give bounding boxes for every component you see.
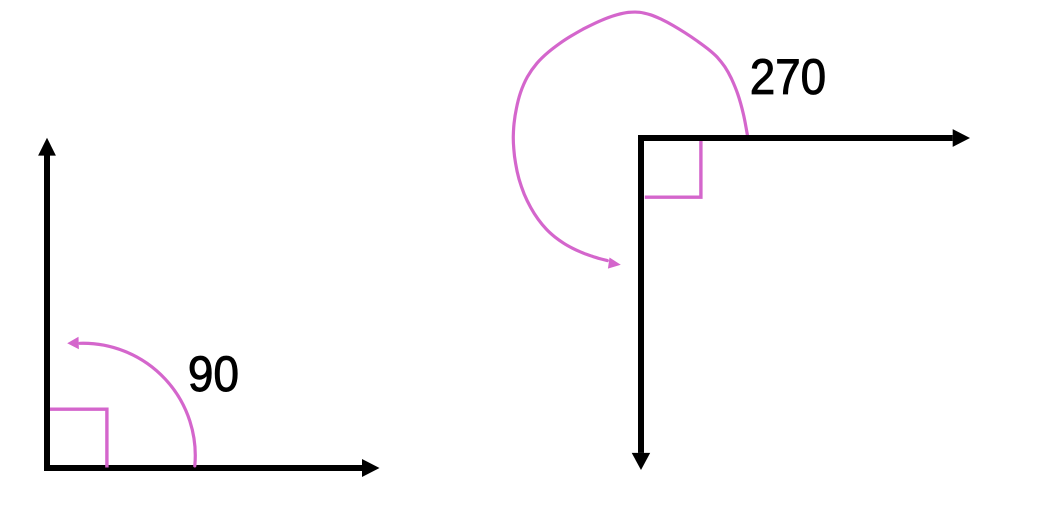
left figure: arc arrowhead (left) [67, 337, 79, 349]
left figure: 90-degree arc [80, 343, 195, 466]
right figure: arc arrowhead (down-right) [608, 258, 621, 269]
left figure: horizontal ray arrowhead (right) [362, 459, 380, 477]
right figure: label 270 [752, 59, 824, 94]
right figure: 270-degree arc [513, 12, 747, 261]
left figure: vertical ray arrowhead (up) [38, 138, 56, 156]
left figure: right-angle square marker [50, 409, 107, 467]
left figure: label 90 [190, 356, 237, 391]
right figure: horizontal ray shaft [638, 135, 953, 141]
left figure: horizontal ray shaft [44, 465, 362, 471]
right figure: horizontal ray arrowhead (right) [953, 129, 970, 147]
left figure: vertical ray shaft [44, 155, 50, 471]
right figure: vertical ray shaft [638, 135, 644, 453]
right figure: right-angle square marker [645, 137, 701, 197]
right figure: vertical ray arrowhead (down) [632, 453, 651, 470]
